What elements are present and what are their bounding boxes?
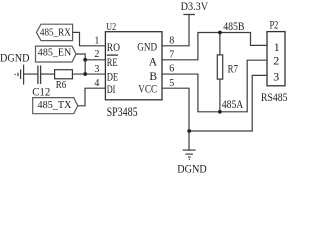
svg-text:D3.3V: D3.3V [181,0,209,13]
svg-text:DE: DE [107,71,119,83]
svg-text:485_EN: 485_EN [38,48,72,59]
svg-text:2: 2 [273,54,279,68]
svg-text:485A: 485A [222,97,244,111]
svg-text:SP3485: SP3485 [107,105,138,119]
svg-text:R7: R7 [228,63,238,75]
svg-text:P2: P2 [270,18,279,32]
svg-text:RE: RE [107,57,118,69]
svg-text:4: 4 [94,78,99,89]
svg-text:7: 7 [169,50,174,61]
svg-text:485_RX: 485_RX [40,27,71,38]
svg-text:485_TX: 485_TX [38,100,72,111]
svg-text:3: 3 [273,69,279,83]
svg-text:6: 6 [169,64,174,75]
svg-text:5: 5 [169,78,174,89]
svg-text:8: 8 [169,36,174,47]
svg-text:R6: R6 [56,79,67,91]
svg-text:1: 1 [94,36,99,47]
svg-text:U2: U2 [106,21,116,33]
svg-text:DI: DI [107,84,116,96]
svg-text:B: B [149,71,157,83]
svg-text:DGND: DGND [177,161,207,175]
svg-text:RS485: RS485 [261,90,288,104]
svg-text:3: 3 [94,64,99,75]
svg-text:GND: GND [137,42,157,54]
svg-text:A: A [149,57,158,69]
svg-text:1: 1 [274,40,280,54]
svg-text:485B: 485B [223,21,245,33]
svg-text:2: 2 [94,49,99,60]
svg-text:DGND: DGND [0,50,30,64]
svg-text:VCC: VCC [138,83,157,95]
svg-text:RO: RO [107,42,120,54]
svg-text:C12: C12 [32,84,50,98]
